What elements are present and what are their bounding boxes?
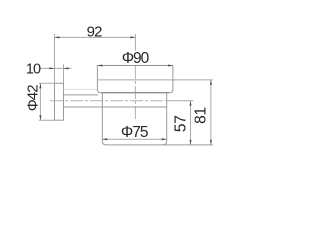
svg-text:81: 81	[193, 107, 210, 124]
svg-text:92: 92	[87, 23, 103, 40]
svg-text:10: 10	[26, 61, 41, 77]
svg-text:57: 57	[173, 115, 190, 132]
svg-text:Φ42: Φ42	[25, 85, 42, 112]
svg-text:Φ90: Φ90	[122, 50, 150, 67]
svg-text:Φ75: Φ75	[121, 124, 148, 141]
